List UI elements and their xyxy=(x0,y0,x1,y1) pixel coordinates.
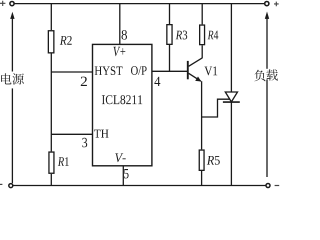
node source line upper xyxy=(11,18,13,71)
wire pin2 to divider node xyxy=(51,71,92,73)
wire top rail xyxy=(14,3,264,5)
resistor R3 xyxy=(167,25,172,45)
node source line lower xyxy=(11,88,13,183)
label V1 xyxy=(204,67,217,76)
node terminal bottom-right xyxy=(266,184,270,188)
label R1 xyxy=(58,157,69,166)
wire R3 bottom to pin4 wire xyxy=(169,45,171,71)
wire pin3 to divider node xyxy=(51,133,92,135)
wire R1 bottom xyxy=(50,174,52,186)
label V- xyxy=(115,153,126,162)
wire thyristor anode xyxy=(230,4,232,92)
label R3 xyxy=(176,31,188,40)
node 电源 label xyxy=(1,73,24,84)
node minus bottom-right xyxy=(275,185,280,187)
label pin 8 xyxy=(122,30,128,39)
wire R4 top xyxy=(201,4,203,25)
node load line upper xyxy=(266,18,268,69)
wire R2 top xyxy=(50,4,52,31)
wire thyristor cathode xyxy=(230,102,232,185)
label R5 xyxy=(207,156,220,165)
wire pin8 to top rail xyxy=(119,4,121,45)
label R4 xyxy=(208,31,219,40)
resistor R5 xyxy=(199,150,204,170)
resistor R2 xyxy=(48,31,54,53)
thyristor VS triangle and cathode bar xyxy=(223,92,240,102)
resistor R1 xyxy=(49,152,54,173)
label pin 4 xyxy=(154,77,160,86)
wire divider node R2-R1 xyxy=(50,54,52,152)
wire gate of thyristor xyxy=(202,99,231,117)
node plus top-right xyxy=(274,2,279,7)
node load line lower xyxy=(266,80,268,178)
label HYST xyxy=(95,66,123,75)
node source arrowhead xyxy=(10,12,14,19)
label V+ xyxy=(113,47,125,56)
label pin 3 xyxy=(82,138,87,148)
node load arrowhead xyxy=(265,12,269,19)
label O/P xyxy=(131,66,147,75)
label pin 5 xyxy=(124,169,129,178)
label pin 2 xyxy=(81,77,87,86)
wire R4 bottom to collector xyxy=(201,45,203,58)
node terminal top-right xyxy=(265,2,269,6)
resistor R4 xyxy=(200,25,205,45)
label ICL8211 xyxy=(102,95,142,104)
label R2 xyxy=(60,36,72,45)
node 负载 label xyxy=(254,69,277,81)
wire bottom rail xyxy=(13,185,266,187)
node plus top-left xyxy=(0,1,5,6)
transistor Q V1 xyxy=(188,58,202,82)
op-amp U1 ICL8211 box xyxy=(93,44,152,165)
wire pin4 to base V1 xyxy=(152,70,188,72)
node minus bottom-left xyxy=(0,183,2,185)
wire pin5 to bottom rail xyxy=(122,166,124,186)
wire R5 bottom xyxy=(201,171,203,186)
node terminal top-left xyxy=(10,2,14,6)
wire emitter to R5 xyxy=(201,81,203,149)
node terminal bottom-left xyxy=(9,184,13,188)
label TH xyxy=(94,130,108,138)
wire R3 top xyxy=(169,4,171,24)
